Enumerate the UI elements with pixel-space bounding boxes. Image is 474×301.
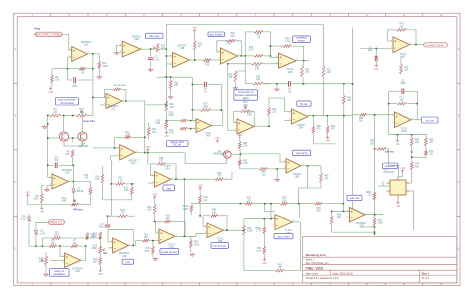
wire fb right leg bbox=[184, 222, 186, 237]
svg-text:10K: 10K bbox=[124, 190, 129, 192]
wire fb left leg U1C bbox=[104, 89, 106, 97]
resistor R61 bbox=[275, 264, 284, 272]
wire to R23 bbox=[111, 183, 116, 185]
junction bbox=[240, 203, 242, 205]
svg-text:3: 3 bbox=[273, 217, 274, 219]
svg-text:R49: R49 bbox=[247, 198, 252, 200]
junction R23 left bbox=[111, 183, 113, 185]
svg-text:0.1u: 0.1u bbox=[155, 59, 160, 61]
wire fb left U6B bbox=[203, 215, 211, 217]
wire C7 loop right leg bbox=[220, 85, 222, 111]
svg-text:100K: 100K bbox=[194, 244, 200, 246]
wire R23 right bbox=[125, 183, 135, 185]
wire into U6A + input bbox=[244, 218, 275, 220]
potentiometer RV4 bbox=[39, 256, 48, 265]
wire horizontal y135 bbox=[389, 134, 428, 136]
resistor R15 bbox=[84, 175, 92, 195]
svg-text:osc mixer: osc mixer bbox=[277, 234, 290, 238]
junction bbox=[375, 48, 377, 50]
resistor R4 bbox=[49, 109, 60, 117]
wire into R31 row bbox=[228, 63, 252, 65]
resistor R13 bbox=[93, 257, 102, 265]
svg-text:-VD: -VD bbox=[262, 262, 267, 265]
wire R65 right bbox=[386, 148, 389, 150]
svg-text:4.7K: 4.7K bbox=[169, 133, 174, 135]
resistor R40 bbox=[259, 168, 268, 177]
svg-text:D: D bbox=[458, 248, 460, 251]
wire R19 bottom to R26 row bbox=[165, 112, 167, 121]
ground on ac row bbox=[275, 87, 279, 91]
resistor R17b bbox=[118, 210, 128, 218]
svg-text:2.7K: 2.7K bbox=[256, 251, 261, 253]
flip-flop U11 CD4013 bbox=[384, 169, 410, 198]
wire R51b down bbox=[190, 212, 192, 215]
svg-text:TL072: TL072 bbox=[168, 244, 175, 246]
svg-text:100p: 100p bbox=[54, 160, 60, 162]
wire R62 down bbox=[327, 133, 329, 136]
wire to R47 bbox=[245, 31, 254, 33]
svg-text:2: 2 bbox=[284, 168, 285, 170]
ground below R41 bbox=[233, 86, 237, 90]
hierarchical label offset bbox=[48, 220, 65, 225]
wire R19 node to R26 bbox=[166, 120, 180, 122]
svg-text:3.0K: 3.0K bbox=[243, 146, 248, 148]
potentiometer RV5 bbox=[153, 43, 166, 52]
wire bottom hf row bbox=[313, 143, 336, 145]
wire left col bbox=[42, 238, 44, 246]
ground below C5 bbox=[148, 68, 152, 72]
power +VD bbox=[400, 167, 405, 173]
svg-text:to fader input: to fader input bbox=[426, 43, 444, 47]
wire to R21 bbox=[131, 184, 133, 187]
svg-text:sub osc: sub osc bbox=[385, 164, 396, 168]
wire link to U6B bbox=[191, 234, 196, 237]
wire sub clk path bbox=[389, 158, 399, 177]
op-amp U1C bbox=[104, 94, 124, 111]
svg-text:oscillator: oscillator bbox=[53, 272, 65, 276]
wire Q1B collector bbox=[82, 116, 84, 132]
svg-text:TL072: TL072 bbox=[164, 166, 171, 168]
svg-text:TL074: TL074 bbox=[205, 133, 212, 135]
op-amp U2B bbox=[120, 36, 142, 57]
resistor R74 bbox=[425, 150, 434, 156]
wire R20 down bbox=[165, 129, 167, 132]
junction bbox=[343, 83, 345, 85]
junction bbox=[194, 59, 196, 61]
junction x166 y105 bbox=[166, 104, 168, 106]
wire to R54 bbox=[243, 219, 245, 225]
svg-text:6.2V: 6.2V bbox=[21, 219, 26, 221]
capacitor C5 bbox=[148, 57, 160, 62]
wire C11 left bbox=[389, 90, 402, 92]
svg-text:3: 3 bbox=[235, 122, 236, 124]
junction bbox=[175, 178, 177, 180]
svg-text:R60: R60 bbox=[324, 176, 329, 178]
wire to R22 bbox=[148, 123, 150, 127]
wire fb to - in U6B bbox=[203, 216, 207, 227]
wire R24 to U4A + bbox=[187, 128, 196, 130]
wire C7 right bbox=[207, 84, 221, 86]
wire row y246 left bbox=[29, 245, 49, 247]
wire fb left leg bbox=[107, 229, 109, 242]
no-connect flag bbox=[411, 150, 413, 152]
svg-text:R50: R50 bbox=[347, 98, 352, 100]
wire R16 to RV6 bbox=[99, 239, 101, 246]
svg-text:10K: 10K bbox=[147, 210, 152, 212]
svg-text:3: 3 bbox=[110, 241, 111, 243]
svg-text:R55: R55 bbox=[282, 198, 287, 200]
wire into U8A + input bbox=[284, 119, 292, 121]
junction bbox=[374, 114, 376, 116]
wire fb left bbox=[156, 221, 165, 223]
svg-text:DC ref: DC ref bbox=[174, 144, 182, 147]
wire R28 node up to fb row bbox=[269, 46, 271, 56]
junction bbox=[166, 120, 168, 122]
wire bottom right join bbox=[360, 226, 375, 228]
note box sub osc bbox=[383, 163, 398, 169]
svg-text:R29: R29 bbox=[145, 248, 150, 250]
wire R68 down bbox=[411, 146, 413, 150]
junction bbox=[73, 181, 75, 183]
junction bbox=[374, 226, 376, 228]
svg-text:100K: 100K bbox=[247, 231, 253, 233]
wire to R14 top bbox=[102, 166, 104, 174]
ground below R52 bbox=[190, 253, 194, 257]
svg-text:U10A: U10A bbox=[401, 130, 407, 133]
wire U1A - input bbox=[67, 56, 71, 58]
svg-text:U5B: U5B bbox=[247, 115, 252, 117]
svg-text:Date: 2021-02-06: Date: 2021-02-06 bbox=[333, 271, 354, 275]
svg-text:offset (1): offset (1) bbox=[49, 220, 62, 224]
resistor R73 bbox=[397, 97, 406, 105]
svg-text:1.62K: 1.62K bbox=[168, 115, 174, 117]
wire R26 to U4A - bbox=[187, 120, 196, 122]
power +VA bbox=[325, 135, 330, 142]
svg-text:R59: R59 bbox=[316, 208, 321, 210]
power -VD bbox=[262, 258, 267, 265]
svg-text:10K: 10K bbox=[65, 154, 70, 156]
svg-text:R19: R19 bbox=[170, 104, 175, 106]
ground below U1B + input bbox=[45, 188, 49, 192]
svg-text:180K: 180K bbox=[203, 106, 209, 108]
wire down to ground bbox=[276, 169, 278, 178]
junction + row at x271 bbox=[270, 218, 272, 220]
svg-text:R54: R54 bbox=[247, 228, 252, 230]
svg-text:+VA: +VA bbox=[215, 137, 220, 140]
wire into U1E + input bbox=[108, 247, 113, 249]
capacitor C6 bbox=[367, 48, 377, 62]
junction at column x166 bbox=[166, 48, 168, 50]
wire R50 to bus bbox=[343, 104, 345, 116]
op-amp U6B bbox=[205, 223, 225, 243]
wire R10 down to signal bbox=[194, 51, 196, 60]
wire into U3B + input bbox=[166, 63, 172, 65]
svg-text:R36: R36 bbox=[205, 62, 210, 64]
wire R76 to out node bbox=[407, 30, 417, 45]
junction bbox=[154, 221, 156, 223]
ground below R29 bbox=[153, 257, 157, 261]
wire into U2A - input bbox=[93, 147, 120, 149]
svg-text:C: C bbox=[458, 181, 460, 184]
wire U2A output long bbox=[135, 152, 185, 154]
svg-text:17K: 17K bbox=[159, 161, 164, 163]
wire R73 left bbox=[389, 103, 398, 105]
resistor R51 bbox=[322, 66, 331, 77]
svg-text:56K: 56K bbox=[415, 166, 420, 168]
svg-text:File: VCO.kicad_sch: File: VCO.kicad_sch bbox=[306, 262, 329, 265]
op-amp U2A bbox=[118, 145, 139, 166]
svg-text:2: 2 bbox=[170, 62, 171, 64]
wire long vertical x352 lower bbox=[352, 84, 354, 218]
wire long vertical x184 bbox=[183, 179, 185, 236]
potentiometer RV1 bbox=[76, 109, 87, 117]
transistor Q1B bbox=[78, 132, 87, 141]
wire C7 loop left leg bbox=[191, 77, 193, 110]
wire R41 node down bbox=[244, 71, 246, 84]
junction bbox=[131, 183, 133, 185]
wire U10 fb left leg bbox=[388, 91, 390, 116]
junction bbox=[388, 103, 390, 105]
junction bbox=[114, 147, 116, 149]
op-amp U1E bbox=[110, 238, 130, 258]
svg-text:R20: R20 bbox=[156, 121, 161, 123]
potentiometer RV2 bbox=[61, 198, 78, 206]
wire R41 down bbox=[234, 82, 236, 86]
junction bbox=[374, 214, 376, 216]
wire down from U9A output bbox=[244, 56, 246, 71]
power +VD bbox=[25, 192, 30, 198]
svg-text:100p: 100p bbox=[98, 227, 104, 229]
op-amp U7B bbox=[347, 208, 367, 228]
power +VD bbox=[145, 146, 150, 152]
svg-text:R57: R57 bbox=[305, 69, 310, 71]
wire +VD to R45 bbox=[199, 190, 201, 195]
wire bus drop to U6A + input bbox=[270, 204, 272, 219]
svg-text:R40: R40 bbox=[261, 172, 266, 174]
wire C6 down bbox=[375, 61, 377, 64]
svg-text:8.2K: 8.2K bbox=[230, 36, 235, 38]
op-amp U8A bbox=[289, 109, 309, 130]
junction x47 y124 bbox=[47, 123, 49, 125]
wire R53 down bbox=[263, 254, 265, 258]
junction R63 top bbox=[331, 211, 333, 213]
wire R22 down bbox=[148, 136, 150, 141]
svg-text:2: 2 bbox=[50, 183, 51, 185]
transistor Q1A bbox=[59, 132, 68, 141]
svg-text:+VD: +VD bbox=[145, 146, 150, 149]
svg-text:3: 3 bbox=[50, 177, 51, 179]
wire Q2 collector right bbox=[231, 153, 240, 155]
svg-text:Rev: 1: Rev: 1 bbox=[422, 271, 430, 275]
power -VA bbox=[395, 139, 399, 146]
wire bus to R66 bbox=[351, 114, 360, 116]
resistor R25 bbox=[143, 234, 150, 242]
op-amp U5A bbox=[152, 166, 172, 187]
resistor R20 bbox=[155, 121, 168, 129]
svg-text:MCP6004: MCP6004 bbox=[62, 170, 73, 172]
wire into U2B - input bbox=[117, 44, 123, 46]
svg-text:U1E: U1E bbox=[122, 256, 127, 258]
junction bbox=[374, 148, 376, 150]
wire to R60 bbox=[320, 166, 322, 173]
svg-text:R51: R51 bbox=[327, 69, 332, 71]
wire Q1 bases joined bbox=[69, 137, 78, 139]
wire into U6B + input bbox=[196, 233, 207, 235]
wire offset label to D2 bbox=[36, 222, 48, 230]
junction bbox=[264, 203, 266, 205]
svg-text:hf osc: hf osc bbox=[300, 102, 309, 106]
svg-text:100K: 100K bbox=[378, 223, 384, 225]
junction bus at x271 bbox=[270, 203, 272, 205]
junction U9A output bbox=[244, 55, 246, 57]
svg-text:3: 3 bbox=[118, 148, 119, 150]
svg-text:RV5: RV5 bbox=[161, 46, 166, 48]
wire fb into U9B - input bbox=[270, 46, 278, 57]
resistor R31 bbox=[251, 62, 262, 71]
svg-text:aux buffer: aux buffer bbox=[210, 32, 223, 36]
capacitor C7 bbox=[204, 82, 208, 94]
wire R31 to U9B + input bbox=[263, 63, 279, 65]
power +VD bbox=[237, 132, 242, 138]
resistor R16 bbox=[92, 232, 102, 240]
wire U9A output bbox=[238, 55, 255, 57]
resistor R59 bbox=[315, 202, 323, 212]
svg-text:3: 3 bbox=[205, 226, 206, 228]
svg-text:1.0M: 1.0M bbox=[125, 135, 130, 137]
wire to R69 bbox=[425, 135, 427, 138]
wire fb to - input bbox=[150, 164, 154, 175]
wire R45 down to fb row bbox=[199, 203, 201, 216]
junction bbox=[59, 245, 61, 247]
zener diode D4 bbox=[21, 216, 32, 222]
junction x227 R31 row bbox=[227, 63, 229, 65]
wire x107 down bbox=[107, 216, 109, 224]
note box saw bbox=[163, 185, 175, 191]
junction bbox=[192, 109, 194, 111]
svg-text:100K: 100K bbox=[144, 251, 150, 253]
wire to R68 bbox=[411, 135, 413, 138]
wire fb right U6B bbox=[217, 216, 227, 230]
resistor R70 bbox=[373, 218, 383, 226]
wire long vertical x227 bbox=[228, 64, 237, 131]
wire R56 to output leg bbox=[291, 46, 304, 61]
resistor R35 bbox=[157, 158, 166, 165]
ground at U2B input bbox=[114, 51, 118, 55]
svg-text:gain: gain bbox=[243, 96, 249, 100]
wire +VD to RV2 bbox=[28, 198, 71, 205]
svg-text:MMBT3904: MMBT3904 bbox=[214, 154, 227, 156]
wire R63 bottom row bbox=[332, 224, 375, 232]
junction bbox=[170, 76, 172, 78]
resistor R54 bbox=[243, 225, 253, 236]
svg-text:+VD: +VD bbox=[98, 273, 103, 276]
svg-text:2: 2 bbox=[273, 224, 274, 226]
wire into U7B - input bbox=[332, 210, 350, 212]
wire D2 down to row bbox=[35, 234, 37, 246]
wire U1A output down to feedback bbox=[92, 54, 94, 80]
resistor R26 bbox=[168, 112, 187, 122]
wire R6 to output leg bbox=[86, 68, 93, 70]
junction bbox=[92, 68, 94, 70]
wire into U1C + input bbox=[100, 104, 106, 106]
power -VD bbox=[396, 201, 401, 208]
wire label to U1A + input bbox=[62, 34, 72, 50]
wire fb to - input bbox=[387, 30, 393, 41]
wire +VD to U11 top bbox=[398, 173, 403, 177]
svg-text:100p: 100p bbox=[400, 83, 406, 85]
junction bbox=[85, 245, 87, 247]
wire RV1 right bbox=[87, 115, 93, 117]
junction bbox=[270, 55, 272, 57]
resistor R6 bbox=[79, 67, 86, 74]
resistor R9 bbox=[33, 193, 43, 203]
resistor R75 bbox=[410, 162, 419, 171]
svg-text:10K: 10K bbox=[166, 218, 171, 220]
svg-text:R28: R28 bbox=[249, 47, 254, 49]
note box oscillator slope bbox=[293, 36, 311, 43]
resistor R34 bbox=[211, 210, 218, 218]
resistor R42 bbox=[238, 160, 248, 166]
wire R40 to U8B + bbox=[268, 168, 286, 170]
svg-text:6.2V: 6.2V bbox=[41, 233, 46, 235]
op-amp U7A bbox=[157, 229, 177, 249]
wire - row to R63 bbox=[331, 211, 333, 215]
wire R13 down bbox=[99, 265, 101, 270]
wire output down bbox=[299, 222, 301, 237]
wire R50 top to ac row bbox=[343, 84, 345, 96]
resistor R22 bbox=[147, 127, 156, 136]
resistor R71 bbox=[400, 64, 409, 74]
wire U1A feedback left leg bbox=[66, 57, 68, 80]
svg-text:R65: R65 bbox=[370, 141, 375, 143]
svg-text:1: 1 bbox=[136, 150, 137, 152]
wire junction to R74 column bbox=[412, 156, 427, 158]
wire h y200 bbox=[103, 199, 132, 201]
ground below U8B input bbox=[275, 178, 279, 182]
resistor R14 bbox=[95, 174, 104, 183]
junction U2B output bbox=[150, 48, 152, 50]
note box trim osc bbox=[146, 33, 164, 38]
op-amp U6A bbox=[273, 215, 294, 235]
note box LP corner bbox=[211, 243, 229, 249]
svg-text:+VD: +VD bbox=[152, 193, 157, 196]
svg-text:3: 3 bbox=[276, 56, 277, 58]
note box saw amp bbox=[293, 150, 311, 155]
wire to R41 bbox=[235, 70, 245, 72]
wire to R29 bbox=[152, 241, 154, 247]
junction R63 row at column bbox=[374, 231, 376, 233]
resistor R55 bbox=[281, 198, 289, 205]
junction fb row bbox=[270, 45, 272, 47]
svg-text:MCP607: MCP607 bbox=[178, 46, 188, 48]
junction U1C input tap bbox=[92, 97, 94, 99]
svg-text:+VD: +VD bbox=[192, 27, 197, 30]
op-amp U1A bbox=[70, 42, 92, 61]
wire junction to C5 bbox=[150, 49, 152, 56]
wire R28 to slope loop bbox=[263, 55, 271, 57]
note box osc mixer bbox=[274, 233, 293, 238]
wire output node column bbox=[72, 165, 74, 188]
potentiometer RV3 bbox=[240, 102, 251, 112]
junction Q1 bases bbox=[72, 137, 74, 139]
wire into U5A + input bbox=[148, 182, 155, 184]
svg-text:TL072: TL072 bbox=[401, 129, 408, 131]
svg-text:-VD: -VD bbox=[396, 205, 401, 208]
wire RV6 to R13 bbox=[99, 254, 101, 258]
wire fb right leg U1C bbox=[121, 89, 126, 101]
svg-text:3: 3 bbox=[70, 49, 71, 51]
resistor R53 bbox=[256, 247, 265, 255]
